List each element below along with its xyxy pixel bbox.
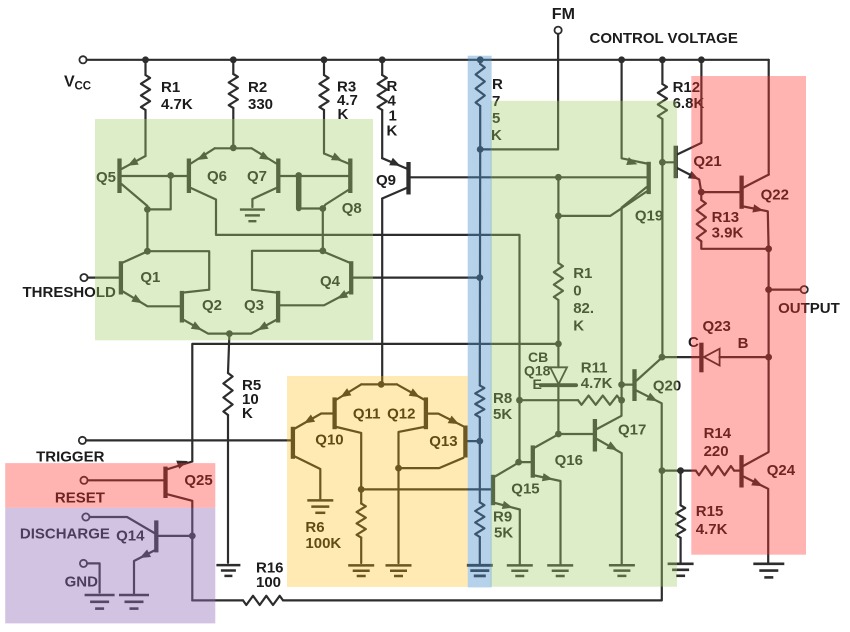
transistor Q12: [387, 384, 463, 468]
transistor Q4: [320, 251, 351, 294]
svg-text:K: K: [387, 123, 398, 140]
transistor Q24: [742, 452, 796, 563]
wire R16 bus: [283, 471, 662, 601]
node Q16 base tie: [515, 459, 522, 466]
svg-text:TRIGGER: TRIGGER: [36, 448, 105, 465]
resistor R12: [658, 60, 705, 119]
ground Q14: [119, 595, 149, 609]
terminal OUTPUT: [769, 286, 840, 317]
diode Q23: [662, 318, 766, 372]
node Q5 collector: [144, 206, 151, 213]
node R13 bottom: [765, 245, 772, 252]
output stage highlight (red, right): [691, 76, 806, 555]
terminal VCC: [64, 56, 91, 92]
ground Q24: [753, 564, 784, 578]
terminal THRESHOLD: [23, 274, 117, 301]
node Q1 collector: [144, 248, 151, 255]
node Q14 base: [189, 533, 196, 540]
node Q5 base tie: [167, 172, 174, 179]
node Q6/Q7 emitter: [230, 144, 237, 151]
node Q21 collector rail: [698, 56, 705, 63]
transistor Q15: [493, 463, 540, 564]
wire Q23 to Q24: [767, 357, 769, 452]
resistor R3: [319, 60, 357, 123]
node Q19 collector2 tie: [555, 213, 562, 220]
resistor R11: [520, 360, 621, 405]
node Q20 collector: [659, 354, 666, 361]
resistor R8: [475, 385, 512, 423]
node Q11/Q12 emitters: [378, 381, 385, 388]
wire Q7 base slab: [299, 176, 323, 209]
wire VCC supply rail: [87, 59, 769, 61]
resistor R16: [192, 560, 283, 606]
ground R5: [216, 565, 240, 576]
wire Q25 emitter bus: [192, 344, 558, 462]
ground Q16: [547, 565, 573, 576]
ground R6: [348, 565, 374, 576]
transistor Q20: [622, 358, 682, 471]
svg-text:FM: FM: [552, 6, 575, 23]
wire Q9 collector: [381, 199, 383, 385]
wire Q7 collector: [252, 188, 276, 207]
node Q22 base tie: [698, 189, 705, 196]
comparator block highlight (green, upper): [95, 119, 373, 340]
resistor R14: [696, 425, 740, 475]
wire Q6 collector: [191, 188, 520, 400]
wire Q8 collector to Q4: [322, 209, 324, 251]
wire Q12/Q13 collector: [399, 458, 464, 468]
transistor Q21: [662, 62, 721, 193]
terminal FM: [552, 6, 575, 34]
node Q15 chain upper: [516, 397, 523, 404]
resistor R1: [141, 60, 193, 113]
node Q7 base tie: [295, 172, 302, 179]
terminal DISCHARGE: [20, 513, 110, 542]
node OUTPUT tap: [765, 286, 772, 293]
node R4 top: [379, 56, 386, 63]
svg-text:R1: R1: [161, 79, 180, 96]
wire Q3/Q4 collector: [252, 251, 323, 293]
wire flipflop to R14: [662, 470, 696, 472]
wire DISCHARGE: [89, 517, 154, 533]
label CONTROL VOLTAGE: [590, 30, 738, 47]
diode Q18: [524, 344, 576, 392]
wire R3 to Q8: [323, 110, 325, 154]
wire R1 to Q5: [144, 110, 146, 156]
transistor Q2: [182, 291, 230, 334]
node Q8 collector: [319, 205, 326, 212]
transistor Q8: [323, 153, 362, 218]
wire R7 to FM node: [479, 106, 481, 149]
ground Q10: [307, 500, 333, 512]
ground GND pin: [85, 595, 115, 609]
transistor Q19: [558, 62, 663, 385]
wire Q12 mirror ground: [397, 468, 399, 563]
wire Q15 base bus: [361, 488, 491, 490]
node R15 top: [677, 467, 684, 474]
svg-text:330: 330: [248, 96, 273, 113]
transistor Q14: [116, 520, 192, 593]
node R12 top: [659, 56, 666, 63]
wire Q19 collector tie: [557, 177, 559, 216]
svg-text:CC: CC: [75, 81, 92, 93]
resistor R2: [229, 60, 273, 113]
node R1 top: [142, 56, 149, 63]
ground Q7: [240, 210, 265, 222]
svg-text:100: 100: [256, 574, 281, 591]
wire FM: [480, 34, 558, 149]
resistor R7: [476, 60, 503, 144]
svg-text:R: R: [492, 76, 503, 93]
wire R2 to Q6/Q7: [232, 108, 234, 148]
svg-text:4.7K: 4.7K: [161, 96, 193, 113]
wire Q18 cathode: [557, 385, 559, 434]
resistor R4: [378, 60, 398, 140]
wire R8 to R9: [479, 417, 481, 441]
transistor Q3: [229, 291, 278, 334]
flip-flop block highlight (green, center): [491, 101, 677, 587]
node R3 top: [321, 56, 328, 63]
resistor R15: [676, 471, 728, 563]
wire Q9 to mirror: [381, 383, 383, 385]
wire R4 to Q9: [381, 110, 383, 158]
transistor Q17: [558, 400, 646, 564]
discharge block highlight (purple): [5, 508, 215, 624]
wire R5 to ground: [227, 415, 229, 563]
wire GND: [87, 563, 100, 592]
wire Q11/Q12 emitter tie: [361, 383, 397, 385]
wire Q20 base link: [620, 385, 622, 401]
transistor Q9: [376, 158, 409, 199]
wire Q1/Q2 collector: [147, 251, 209, 292]
transistor Q10: [293, 414, 344, 500]
divider chain highlight (blue strip): [468, 56, 492, 588]
node Q21 base: [659, 159, 666, 166]
wire R9 leads: [479, 441, 481, 563]
node R7 top: [477, 56, 484, 63]
wire R10 to Q18: [557, 300, 559, 344]
transistor Q5: [96, 156, 147, 209]
wire THRESHOLD: [88, 277, 119, 279]
node R10 top tie: [555, 174, 562, 181]
transistor Q11: [335, 384, 381, 489]
node Q13 base tie: [476, 438, 483, 445]
resistor R9: [475, 502, 513, 541]
trigger comparator highlight (yellow): [287, 376, 468, 587]
node Q12 collector: [395, 465, 402, 472]
transistor Q22: [701, 175, 789, 249]
wire rail to Q22: [768, 60, 770, 175]
wire Q5 diode tie: [147, 176, 170, 210]
node Q4 collector: [319, 247, 326, 254]
transistor Q16: [519, 434, 583, 564]
resistor R10: [554, 216, 594, 335]
wire divider chain: [479, 149, 482, 385]
wire Q15 chain: [518, 400, 520, 462]
node Q19 emitter rail: [618, 56, 625, 63]
wire RESET: [88, 479, 164, 481]
ground Q17: [609, 565, 635, 576]
ground Q12 mirror: [386, 565, 412, 576]
svg-text:CONTROL VOLTAGE: CONTROL VOLTAGE: [590, 30, 738, 47]
wire output node: [767, 249, 769, 357]
wire Q9 base bus: [411, 176, 647, 178]
node R10 bottom tie: [555, 341, 562, 348]
node Q20 base tie: [618, 381, 625, 388]
node Q23 B: [765, 354, 772, 361]
terminal RESET: [55, 477, 105, 507]
wire Q7/Q8 base: [280, 175, 348, 177]
wire Q5/Q6 base: [122, 175, 188, 177]
node Q4 base tie: [476, 274, 483, 281]
ground R9: [467, 565, 493, 576]
terminal TRIGGER: [36, 437, 105, 466]
node R7 bottom: [477, 146, 484, 153]
wire R12 to Q21 base: [661, 119, 663, 162]
wire Q5 collector to Q1: [146, 209, 148, 251]
resistor R5: [223, 334, 261, 422]
transistor Q6: [189, 148, 227, 193]
resistor R13: [697, 192, 769, 249]
wire R12 to Q20: [661, 162, 663, 357]
svg-text:K: K: [242, 405, 253, 422]
terminal GND: [65, 560, 99, 591]
resistor R6: [305, 489, 365, 563]
transistor Q7: [247, 148, 278, 193]
node R2 top: [230, 56, 237, 63]
wire Q6/Q7 emitter tie: [215, 147, 252, 149]
node R6 top: [358, 486, 365, 493]
svg-text:Q9: Q9: [376, 172, 396, 189]
svg-text:V: V: [64, 74, 75, 91]
node R11 right: [618, 397, 625, 404]
transistor Q25: [166, 461, 213, 601]
node flip-flop out: [659, 467, 666, 474]
transistor Q1: [121, 251, 180, 306]
ground Q15: [507, 565, 533, 576]
transistor Q13: [429, 426, 480, 458]
svg-text:R2: R2: [248, 79, 267, 96]
node Q2/Q3 emitters: [226, 330, 233, 337]
wire Q3 base: [280, 290, 349, 305]
ground R15: [668, 564, 694, 576]
node Q17 base tie: [555, 431, 562, 438]
reset block highlight (red, left): [5, 463, 215, 508]
wire Q4 base: [353, 277, 480, 279]
wire TRIGGER: [86, 439, 291, 441]
